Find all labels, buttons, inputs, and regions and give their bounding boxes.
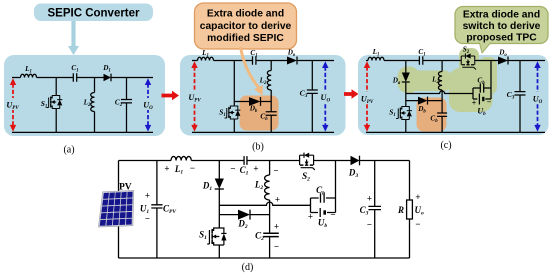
svg-text:proposed TPC: proposed TPC [466, 33, 537, 44]
diode D2 (d) [237, 210, 250, 231]
orange highlight for Cb (c) [417, 98, 447, 132]
capacitor Cb (d) [316, 185, 325, 203]
wire bottom rail (a) [12, 131, 153, 133]
transistor S1 (a) [41, 96, 63, 110]
background panel of circuit (b) [180, 55, 346, 136]
capacitor C3 (b) [300, 89, 318, 100]
green highlight for extra diode/switch (c) [398, 48, 498, 112]
svg-text:−: − [415, 219, 420, 229]
svg-text:−: − [145, 214, 150, 224]
inductor L1 (d) [164, 156, 195, 175]
svg-text:−: − [273, 166, 278, 176]
svg-text:−: − [190, 163, 195, 173]
connector line from callout to Cb (b) [241, 47, 263, 96]
background panel of circuit (a) [4, 55, 165, 136]
voltage arrow UO (a) [141, 78, 155, 131]
inductor L1 (b) [198, 49, 214, 61]
voltage arrow UPV (b) [187, 61, 203, 131]
svg-text:+: + [275, 195, 280, 205]
svg-text:(b): (b) [252, 142, 264, 153]
wire C3 branch (d) [374, 161, 376, 259]
svg-text:+: + [472, 99, 477, 108]
capacitor Cb battery side (c) [477, 77, 485, 93]
wire output cap branch (b) [311, 61, 313, 133]
capacitor C3 (c) [507, 90, 526, 101]
diode D0 (b) [287, 49, 297, 65]
wire right vertical (d) [409, 161, 411, 259]
svg-text:(d): (d) [242, 262, 254, 273]
wire inductor branch (a) [94, 78, 96, 133]
wire CPV branch (d) [156, 161, 158, 259]
battery Ub (d) [308, 208, 336, 229]
wire S1 branch (c) [405, 94, 407, 133]
svg-text:−: − [230, 164, 235, 174]
wire switch branch (a) [55, 78, 57, 133]
callout: extra diode and capacitor note [195, 3, 297, 49]
transistor S1 (c) [389, 107, 412, 120]
inductor L1 (a) [21, 65, 37, 78]
svg-text:+: + [145, 191, 150, 201]
voltage arrow UO (c) [531, 61, 545, 131]
wire battery riser (d) [335, 161, 337, 199]
orange highlight for extra diode/capacitor (b) [240, 96, 279, 131]
capacitor Cb (b) [260, 112, 276, 122]
background panel of circuit (c) [358, 55, 549, 135]
diode D1 (d) [202, 179, 224, 193]
svg-text:−: − [330, 210, 335, 220]
svg-text:Extra diode and: Extra diode and [463, 10, 540, 21]
svg-text:+: + [274, 222, 279, 232]
resistor R (d) [397, 200, 412, 219]
arrow from SEPIC Converter label to circuit (a) [68, 21, 79, 55]
inductor L2 (a) [83, 93, 95, 112]
svg-text:(c): (c) [440, 140, 451, 151]
diode D0 (c) [498, 49, 508, 65]
svg-text:−: − [274, 242, 279, 252]
inductor L2 (d) [254, 166, 280, 205]
voltage Uo (d) [415, 192, 425, 229]
voltage arrow UPV (a) [6, 78, 22, 131]
inductor L2 (c) [431, 72, 442, 91]
capacitor C1 (b) [250, 49, 257, 65]
wire top rail (c) [366, 60, 545, 62]
diode Db (c) [406, 97, 442, 115]
wire top rail (a) [12, 77, 153, 79]
wire output cap branch (a) [126, 78, 128, 133]
svg-text:modified SEPIC: modified SEPIC [207, 33, 284, 44]
battery Ub (c) [472, 94, 492, 118]
svg-text:−: − [487, 98, 492, 107]
wire L2 branch (c) [441, 61, 443, 133]
capacitor C2 (a) [115, 99, 132, 109]
battery loop wires (d) [309, 198, 336, 213]
wire switch branch (b) [233, 61, 235, 133]
wire top rail (b) [192, 60, 334, 62]
wire top rail (d) [119, 160, 410, 162]
wire node B to battery with hop over L2 (c) [406, 91, 473, 94]
wire L2/Cb branch (b) [270, 61, 272, 133]
transistor S1 (b) [219, 106, 240, 119]
svg-text:+: + [253, 164, 258, 174]
inductor L2 (b) [259, 71, 272, 91]
svg-text:(a): (a) [63, 145, 74, 156]
svg-text:R: R [397, 205, 404, 215]
voltage arrow UPV (c) [360, 61, 376, 131]
capacitor Cb (c) [430, 113, 447, 124]
capacitor C3 (d) [360, 194, 381, 230]
voltage arrow UO (b) [318, 61, 332, 131]
capacitor C1 (d) [230, 156, 258, 177]
svg-text:+: + [367, 194, 372, 204]
diode D1 (a) [102, 64, 111, 81]
PV panel (d) [98, 183, 133, 228]
diode D3 (d) [348, 156, 360, 179]
callout: extra diode and switch note [455, 7, 548, 54]
svg-text:SEPIC Converter: SEPIC Converter [47, 8, 140, 20]
svg-text:−: − [367, 220, 372, 230]
callout: SEPIC Converter label [34, 4, 153, 22]
diode Db (b) [234, 97, 271, 114]
svg-text:+: + [164, 164, 169, 174]
diode Da (c) [392, 73, 410, 87]
wire left vertical (d) [118, 161, 120, 259]
wire D1/S1 branch (d) [218, 161, 220, 259]
capacitor C2 (d) [255, 222, 279, 252]
wire bottom rail (d) [119, 257, 410, 259]
transistor S2 (d) [300, 153, 315, 183]
svg-text:+: + [415, 192, 420, 202]
wire D2 line (d) [219, 214, 269, 216]
capacitor C1 (a) [71, 64, 78, 82]
battery loop wires (c) [473, 61, 491, 100]
svg-text:PV: PV [119, 183, 132, 193]
transistor S1 (d) [199, 228, 226, 245]
wire bottom rail (b) [192, 131, 334, 133]
wire node B to battery with hop over L2 (d) [219, 202, 308, 205]
red arrow from (b) to (c) [344, 89, 359, 99]
wire L2/C2 branch (d) [269, 161, 271, 259]
transistor S2 (c) [461, 46, 476, 70]
wire output cap branch (c) [519, 61, 521, 133]
red arrow from (a) to (b) [162, 91, 180, 101]
wire bottom rail (c) [366, 131, 545, 133]
inductor L1 (c) [368, 48, 384, 61]
capacitor C1 (c) [418, 48, 425, 65]
svg-text:capacitor to derive: capacitor to derive [200, 21, 292, 32]
svg-text:+: + [308, 212, 313, 222]
svg-text:switch to derive: switch to derive [463, 21, 541, 32]
wire Da branch (c) [405, 61, 407, 94]
svg-text:Extra diode and: Extra diode and [207, 9, 284, 20]
capacitor CPV with voltage U1 (d) [140, 191, 178, 224]
